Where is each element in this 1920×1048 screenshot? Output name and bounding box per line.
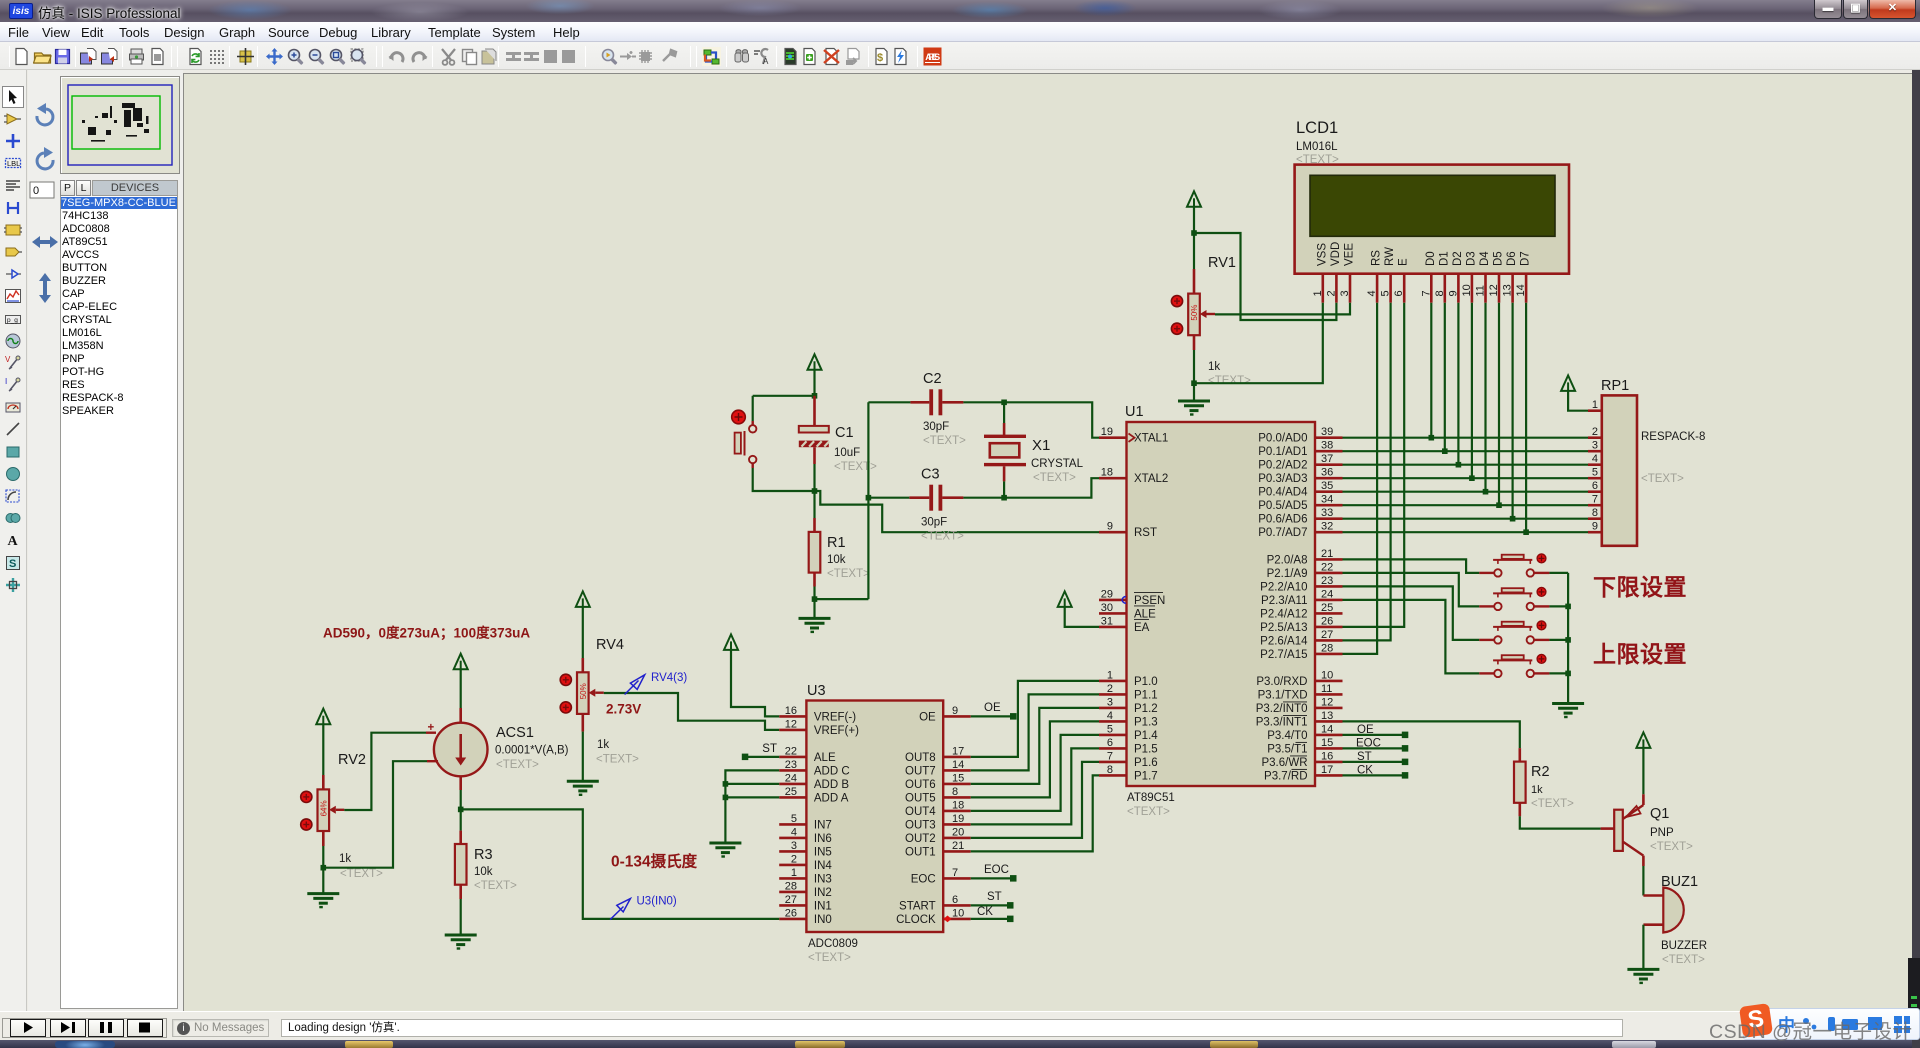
svg-text:36: 36 <box>1321 467 1333 479</box>
svg-text:9: 9 <box>1447 290 1459 296</box>
svg-text:IN4: IN4 <box>814 860 833 872</box>
ground buttons rail <box>1552 702 1584 705</box>
svg-text:3: 3 <box>1107 696 1113 708</box>
U1 pin 36 P0.3/AD3 <box>1315 477 1343 480</box>
pot RV4 knobs <box>560 674 571 685</box>
wire P2.2 to button3 <box>1343 586 1480 640</box>
svg-text:38: 38 <box>1321 440 1333 452</box>
svg-text:ALE: ALE <box>1134 608 1156 620</box>
svg-text:ADD C: ADD C <box>814 765 850 777</box>
svg-text:4: 4 <box>791 826 797 838</box>
svg-text:1: 1 <box>1592 399 1598 411</box>
svg-text:31: 31 <box>1101 615 1113 627</box>
svg-text:I: I <box>5 377 7 386</box>
svg-text:EOC: EOC <box>1356 738 1381 750</box>
toolbar <box>0 42 1920 70</box>
junction D1 <box>1442 448 1448 454</box>
svg-text:<TEXT>: <TEXT> <box>1127 806 1170 818</box>
wire LCD VSS down to RV1 bottom <box>1194 303 1323 384</box>
wire Q1 emitter to VCC <box>1642 748 1644 794</box>
svg-text:3: 3 <box>1592 440 1598 452</box>
svg-text:p_g: p_g <box>7 317 18 324</box>
junction X1 top <box>1001 400 1007 406</box>
svg-text:CK: CK <box>1357 765 1373 777</box>
svg-text:50%: 50% <box>1190 305 1199 321</box>
svg-text:P3.4/T0: P3.4/T0 <box>1267 730 1307 742</box>
wire P0.2 to RP1 pin 4 <box>1343 464 1589 466</box>
button SW1 terminals <box>1494 569 1501 576</box>
svg-text:7: 7 <box>952 867 958 879</box>
U3 pin 1 IN3 <box>779 877 806 880</box>
svg-text:OE: OE <box>919 711 936 723</box>
resistor R1 body <box>809 532 821 573</box>
U3 pin 23 ADD C <box>779 769 806 772</box>
lcd pin 3 VEE <box>1349 274 1352 303</box>
respack RP1 pin 6 <box>1588 490 1602 493</box>
junction D3 <box>1469 475 1475 481</box>
U3 pin 18 OUT4 <box>943 810 971 813</box>
U1 pin 32 P0.7/AD7 <box>1315 531 1343 534</box>
svg-text:50%: 50% <box>579 683 588 699</box>
svg-text:D1: D1 <box>1438 251 1450 266</box>
svg-text:<TEXT>: <TEXT> <box>1208 375 1251 387</box>
svg-text:D7: D7 <box>1520 251 1532 266</box>
svg-text:14: 14 <box>1515 284 1527 296</box>
U1 pin 6 P1.5 <box>1099 747 1127 750</box>
U1 pin 29 PSEN <box>1099 599 1127 602</box>
resistor R2 bottom wire to Q1 base <box>1519 803 1522 817</box>
svg-text:25: 25 <box>1321 602 1333 614</box>
U1 pin 9 RST <box>1099 531 1127 534</box>
svg-text:18: 18 <box>952 799 964 811</box>
U3 pin 26 IN0 <box>779 918 806 921</box>
svg-text:2: 2 <box>1592 426 1598 438</box>
U1 pin 25 P2.4/A12 <box>1315 612 1343 615</box>
svg-text:CLOCK: CLOCK <box>896 914 936 926</box>
svg-text:4: 4 <box>1366 290 1378 296</box>
svg-text:PSEN: PSEN <box>1134 595 1165 607</box>
window title bar <box>0 0 1920 22</box>
svg-text:23: 23 <box>785 759 797 771</box>
svg-text:VSS: VSS <box>1316 243 1328 266</box>
U3 pin 15 OUT6 <box>943 783 971 786</box>
U1 pin 24 P2.3/A11 <box>1315 599 1343 602</box>
reset button body <box>735 433 741 454</box>
crystal X1 top electrode <box>984 435 1026 438</box>
svg-text:32: 32 <box>1321 521 1333 533</box>
svg-text:P0.2/AD2: P0.2/AD2 <box>1258 460 1307 472</box>
U3 pin 3 IN5 <box>779 850 806 853</box>
U3 pin 22 ALE <box>779 756 806 759</box>
button SW4 terminals <box>1494 670 1501 677</box>
wire LCD RS to P2.7 <box>1343 303 1378 654</box>
svg-text:5: 5 <box>791 813 797 825</box>
wire P3.4 OE terminal <box>1343 734 1403 736</box>
wire RV2 bottom <box>322 831 325 846</box>
svg-text:RV2: RV2 <box>338 752 366 768</box>
junction D4 <box>1483 489 1489 495</box>
U1 pin 13 P3.3/INT1 <box>1315 720 1343 723</box>
junction D5 <box>1496 502 1502 508</box>
svg-text:33: 33 <box>1321 507 1333 519</box>
wire RST tap <box>815 491 1100 532</box>
button SW3 contact bar <box>1493 626 1532 628</box>
U3 pin 12 VREF(+) <box>779 729 806 732</box>
svg-text:26: 26 <box>785 907 797 919</box>
junction ADD A <box>723 795 729 801</box>
svg-text:12: 12 <box>1321 696 1333 708</box>
wire OUT2 to P1.6 <box>971 762 1099 838</box>
wire RV1 bottom to ground node <box>1193 335 1196 350</box>
wire LCD VEE to RV1 wiper <box>1215 303 1350 315</box>
wire VCC node to reset button top <box>753 395 815 397</box>
svg-text:P1.0: P1.0 <box>1134 676 1158 688</box>
svg-text:P2.6/A14: P2.6/A14 <box>1260 635 1308 647</box>
svg-text:8: 8 <box>1107 764 1113 776</box>
svg-text:P3.5/T1: P3.5/T1 <box>1267 743 1307 755</box>
U1 pin 30 ALE <box>1099 612 1127 615</box>
svg-text:8: 8 <box>1592 507 1598 519</box>
svg-text:OUT7: OUT7 <box>905 765 936 777</box>
svg-text:IN0: IN0 <box>814 914 832 926</box>
junction R1 bottom <box>812 596 818 602</box>
U1 pin 27 P2.6/A14 <box>1315 639 1343 642</box>
resistor R1 bottom wire <box>813 573 816 587</box>
lcd pin 7 D0 <box>1430 274 1433 303</box>
svg-text:P3.1/TXD: P3.1/TXD <box>1258 689 1308 701</box>
wire buzzer to ground <box>1642 925 1644 970</box>
lcd pin 12 D5 <box>1498 274 1501 303</box>
svg-text:D0: D0 <box>1425 251 1437 266</box>
svg-text:RV4(3): RV4(3) <box>651 672 687 684</box>
wire P0.4 to RP1 pin 6 <box>1343 491 1589 493</box>
U3 pin 6 START <box>943 904 971 907</box>
svg-text:<TEXT>: <TEXT> <box>1033 472 1076 484</box>
U3 pin 5 IN7 <box>779 823 806 826</box>
svg-text:1: 1 <box>1312 290 1324 296</box>
U1 pin 10 P3.0/RXD <box>1315 680 1343 683</box>
svg-text:10: 10 <box>952 907 964 919</box>
button SW1 pin stubs <box>1479 572 1494 574</box>
svg-text:14: 14 <box>1321 723 1333 735</box>
svg-text:XTAL1: XTAL1 <box>1134 433 1168 445</box>
wire cap ground rail vertical <box>867 402 869 599</box>
svg-text:R3: R3 <box>474 847 493 863</box>
junction D7 <box>1523 529 1529 535</box>
U1 pin 19 XTAL1 <box>1099 436 1127 439</box>
svg-text:OUT5: OUT5 <box>905 792 936 804</box>
wire C2 right to XTAL1 <box>963 402 1099 437</box>
button SW1 contact bar <box>1493 559 1532 561</box>
svg-text:<TEXT>: <TEXT> <box>496 759 539 771</box>
wire OE with terminal <box>971 715 1014 717</box>
svg-text:22: 22 <box>785 745 797 757</box>
wire OUT7 to P1.1 <box>971 694 1099 770</box>
U1 pin 31 EA <box>1099 626 1127 629</box>
button SW3 cap <box>1502 622 1524 626</box>
svg-text:$: $ <box>877 52 883 64</box>
svg-text:A: A <box>8 534 19 549</box>
svg-text:64%: 64% <box>320 800 329 816</box>
wire LCD D3 riser <box>1471 303 1473 479</box>
mcu U1 AT89C51 body <box>1127 422 1316 786</box>
svg-text:IN6: IN6 <box>814 833 832 845</box>
rotation tools <box>28 70 62 330</box>
svg-text:2.73V: 2.73V <box>606 702 641 717</box>
svg-text:P3.0/RXD: P3.0/RXD <box>1256 676 1307 688</box>
wire ALE stub <box>745 756 779 758</box>
svg-text:ADD B: ADD B <box>814 779 849 791</box>
pot RV1 body <box>1188 294 1200 336</box>
svg-text:4: 4 <box>1592 453 1598 465</box>
U1 pin 23 P2.2/A10 <box>1315 585 1343 588</box>
wire RV1 top <box>1193 207 1195 269</box>
svg-text:<TEXT>: <TEXT> <box>596 754 639 766</box>
power arrow for VREF(-) <box>724 634 738 650</box>
devices list <box>60 196 178 1009</box>
svg-text:13: 13 <box>1502 284 1514 296</box>
wire LCD D0 riser <box>1430 303 1432 438</box>
svg-text:下限设置: 下限设置 <box>1593 574 1687 600</box>
button SW4 pin stubs <box>1479 672 1494 674</box>
lcd pin 13 D6 <box>1511 274 1514 303</box>
svg-text:RP1: RP1 <box>1601 378 1629 394</box>
svg-text:1: 1 <box>791 867 797 879</box>
wire OUT4 to P1.4 <box>971 735 1099 811</box>
ground under buzzer <box>1627 968 1659 971</box>
U3 pin 19 OUT3 <box>943 823 971 826</box>
svg-text:P0.5/AD5: P0.5/AD5 <box>1258 500 1307 512</box>
svg-text:35: 35 <box>1321 480 1333 492</box>
wire OUT6 to P1.2 <box>971 708 1099 784</box>
U3 pin 28 IN2 <box>779 891 806 894</box>
svg-text:5: 5 <box>1592 467 1598 479</box>
wire P2.1 to button2 <box>1343 573 1480 607</box>
wire P3.5 EOC terminal <box>1343 747 1403 749</box>
lcd pin 4 RS <box>1376 274 1379 303</box>
button SW1 red actuator <box>1537 554 1546 563</box>
svg-text:P3.3/INT1: P3.3/INT1 <box>1256 716 1308 728</box>
respack RP1 pin 7 <box>1588 504 1602 507</box>
button SW2 red actuator <box>1537 588 1546 597</box>
svg-text:7: 7 <box>1592 494 1598 506</box>
CSDN watermark <box>1709 1015 1912 1044</box>
buzzer BUZ1 body <box>1663 888 1683 933</box>
svg-text:ADD A: ADD A <box>814 792 849 804</box>
svg-text:ACS1: ACS1 <box>496 725 534 741</box>
svg-text:16: 16 <box>1321 750 1333 762</box>
U3 pin 8 OUT5 <box>943 796 971 799</box>
svg-text:6: 6 <box>1107 737 1113 749</box>
svg-text:C3: C3 <box>921 467 940 483</box>
ACS1 bottom stub <box>459 776 462 790</box>
junction D6 <box>1510 516 1516 522</box>
junction R1 top node <box>812 488 818 494</box>
svg-text:LM016L: LM016L <box>1296 141 1338 153</box>
wire LCD D5 riser <box>1498 303 1500 506</box>
svg-text:30: 30 <box>1101 602 1113 614</box>
svg-text:12: 12 <box>1488 284 1500 296</box>
svg-text:27: 27 <box>785 894 797 906</box>
U3 pin 10 CLOCK <box>943 918 971 921</box>
crystal X1 stub top <box>1003 402 1005 423</box>
wire analog input to IN0 <box>461 809 780 919</box>
button SW2 cap <box>1502 588 1524 592</box>
device selector header <box>60 180 75 196</box>
lcd pin 2 VDD <box>1335 274 1338 303</box>
svg-text:RV1: RV1 <box>1208 255 1236 271</box>
svg-text:C1: C1 <box>835 425 854 441</box>
capacitor C3 plates <box>929 485 933 511</box>
svg-text:Q1: Q1 <box>1650 806 1669 822</box>
wire RV4 top <box>582 607 584 658</box>
svg-text:CK: CK <box>977 906 993 918</box>
svg-text:BUZZER: BUZZER <box>1661 940 1707 952</box>
wire LCD D7 riser <box>1525 303 1527 533</box>
svg-text:4: 4 <box>1107 710 1113 722</box>
resistor R2 top stub <box>1519 748 1522 762</box>
svg-text:28: 28 <box>785 880 797 892</box>
resistor R3 top stub <box>459 831 462 844</box>
side pane <box>28 70 183 1011</box>
svg-text:OUT3: OUT3 <box>905 819 936 831</box>
svg-text:<TEXT>: <TEXT> <box>474 880 517 892</box>
U3 pin 7 EOC <box>943 877 971 880</box>
svg-text:6: 6 <box>1393 290 1405 296</box>
capacitor C2 plates <box>929 389 933 415</box>
svg-text:12: 12 <box>785 718 797 730</box>
junction RV2 bottom <box>321 865 327 871</box>
svg-text:8: 8 <box>952 786 958 798</box>
svg-text:RS: RS <box>1371 250 1383 266</box>
svg-text:18: 18 <box>1101 467 1113 479</box>
svg-text:23: 23 <box>1321 575 1333 587</box>
svg-text:P2.0/A8: P2.0/A8 <box>1267 554 1308 566</box>
svg-text:11: 11 <box>1321 683 1332 695</box>
transistor Q1 base stub <box>1601 827 1615 830</box>
U1 pin 16 P3.6/WR <box>1315 761 1343 764</box>
wire RV2 wiper to ACS1 plus <box>344 733 426 810</box>
svg-text:R1: R1 <box>827 535 846 551</box>
svg-text:8: 8 <box>1434 290 1446 296</box>
U1 pin 12 P3.2/INT0 <box>1315 707 1343 710</box>
wire P0.1 to RP1 pin 3 <box>1343 450 1589 452</box>
junction C1 top <box>812 393 818 399</box>
ground under RV2 <box>307 892 339 895</box>
U1 pin 38 P0.1/AD1 <box>1315 450 1343 453</box>
svg-text:P3.2/INT0: P3.2/INT0 <box>1256 703 1308 715</box>
U1 pin 26 P2.5/A13 <box>1315 626 1343 629</box>
wire Q1 collector to buzzer <box>1642 866 1644 896</box>
svg-text:13: 13 <box>1321 710 1333 722</box>
lcd pin 1 VSS <box>1322 274 1325 303</box>
transistor Q1 emitter <box>1623 805 1644 819</box>
button SW3 terminals <box>1494 636 1501 643</box>
ground under R3 <box>445 934 477 937</box>
svg-text:EA: EA <box>1134 622 1150 634</box>
terminal square ST at ALE <box>742 754 749 761</box>
wire VCC to C1 top <box>813 370 815 396</box>
svg-text:<TEXT>: <TEXT> <box>923 435 966 447</box>
svg-text:D6: D6 <box>1506 251 1518 266</box>
svg-text:ADC0809: ADC0809 <box>808 938 858 950</box>
svg-text:22: 22 <box>1321 561 1333 573</box>
respack RP1 pin 1 <box>1588 409 1602 412</box>
svg-text:ST: ST <box>987 891 1002 903</box>
wire LCD D2 riser <box>1457 303 1459 465</box>
lcd LCD1 body <box>1295 165 1569 274</box>
svg-text:20: 20 <box>952 826 964 838</box>
svg-text:34: 34 <box>1321 494 1333 506</box>
U1 pin 2 P1.1 <box>1099 693 1127 696</box>
capacitor C2 stubs <box>910 401 929 404</box>
wire ACS1 top <box>460 669 462 708</box>
svg-text:AD590，0度273uA；100度373uA: AD590，0度273uA；100度373uA <box>323 625 530 642</box>
svg-text:21: 21 <box>1321 548 1333 560</box>
U3 pin 25 ADD A <box>779 796 806 799</box>
button SW4 cap <box>1502 655 1524 659</box>
U3 pin 20 OUT2 <box>943 837 971 840</box>
svg-text:C2: C2 <box>923 371 942 387</box>
wire EA to VCC <box>1065 607 1099 627</box>
svg-text:P1.4: P1.4 <box>1134 730 1158 742</box>
svg-text:26: 26 <box>1321 615 1333 627</box>
wire C3 right to XTAL2 <box>963 478 1099 498</box>
svg-text:19: 19 <box>1101 426 1113 438</box>
pot RV4 body <box>577 672 589 714</box>
svg-text:VREF(+): VREF(+) <box>814 725 859 737</box>
svg-text:VDD: VDD <box>1330 242 1342 266</box>
svg-text:24: 24 <box>785 772 797 784</box>
button SW1 cap <box>1502 555 1524 559</box>
svg-text:P3.6/WR: P3.6/WR <box>1261 757 1307 769</box>
wire buttons common rail <box>1549 572 1568 574</box>
svg-text:19: 19 <box>952 813 964 825</box>
svg-text:<TEXT>: <TEXT> <box>921 531 964 543</box>
U3 pin 2 IN4 <box>779 864 806 867</box>
wire LCD D4 riser <box>1484 303 1486 492</box>
svg-text:<TEXT>: <TEXT> <box>1662 954 1705 966</box>
pot RV2 body <box>318 789 330 831</box>
lcd pin 8 D1 <box>1444 274 1447 303</box>
wire RV4 wiper to VREF+ <box>604 693 779 730</box>
lcd pin 11 D4 <box>1484 274 1487 303</box>
wire ST with terminal <box>971 904 1011 906</box>
junction D2 <box>1456 462 1462 468</box>
buzzer BUZ1 pins <box>1643 894 1663 897</box>
svg-text:AT89C51: AT89C51 <box>1127 792 1175 804</box>
U1 pin 33 P0.6/AD6 <box>1315 517 1343 520</box>
svg-text:2: 2 <box>1325 290 1337 296</box>
reset button red actuator <box>732 410 746 424</box>
power arrow above Q1 <box>1636 732 1650 748</box>
svg-text:IN5: IN5 <box>814 846 832 858</box>
power arrow VCC above RP1 <box>1561 375 1575 391</box>
junction C3 left <box>866 495 872 501</box>
svg-text:P2.5/A13: P2.5/A13 <box>1260 622 1307 634</box>
U1 pin 11 P3.1/TXD <box>1315 693 1343 696</box>
svg-text:P1.5: P1.5 <box>1134 743 1158 755</box>
U1 pin 17 P3.7/RD <box>1315 774 1343 777</box>
svg-text:VREF(-): VREF(-) <box>814 711 856 723</box>
svg-text:V: V <box>5 355 11 364</box>
svg-text:A: A <box>763 57 769 66</box>
ground ADD pins <box>709 842 741 845</box>
svg-text:9: 9 <box>1107 521 1113 533</box>
U1 pin 1 P1.0 <box>1099 680 1127 683</box>
current source ACS1 arrow <box>459 734 462 759</box>
U1 pin 22 P2.1/A9 <box>1315 572 1343 575</box>
